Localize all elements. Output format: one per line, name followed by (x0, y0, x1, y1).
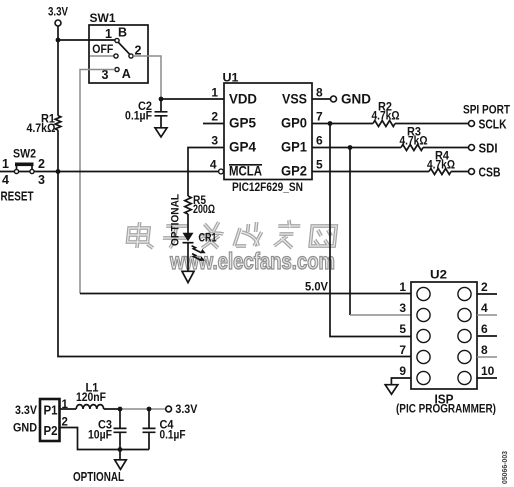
wire GP2 row to R4 (312, 171, 429, 173)
U2 right stubs pins 2,4,6,8,10 (477, 293, 497, 295)
wire SW1 pin2 to VDD node (133, 56, 161, 99)
svg-text:1: 1 (399, 280, 406, 294)
capacitor C4 (143, 409, 186, 450)
wire R4 to CSB (451, 171, 469, 173)
wire L1 to 3.3V terminal (104, 408, 120, 410)
svg-text:1: 1 (2, 157, 9, 171)
svg-text:0.1µF: 0.1µF (125, 111, 152, 123)
svg-text:www.elecfans.com: www.elecfans.com (169, 248, 335, 274)
IC U1 PIC12F629 (210, 73, 323, 180)
wire GP4 to R5 (188, 148, 224, 197)
svg-text:7: 7 (316, 110, 323, 124)
svg-text:8: 8 (316, 86, 323, 100)
U2 pin number labels left (399, 280, 406, 378)
svg-text:3: 3 (38, 173, 45, 187)
wire GP0 junction down to U2 pin5 (330, 124, 411, 337)
inductor L1 (76, 383, 106, 410)
pin2 GP5 stub (203, 123, 224, 125)
pin1 stub P1 (60, 408, 76, 410)
svg-text:4: 4 (210, 158, 217, 172)
svg-text:6: 6 (481, 322, 488, 336)
wire junction down to R1 (57, 40, 59, 116)
svg-text:GP1: GP1 (281, 139, 307, 155)
svg-text:9: 9 (399, 364, 406, 378)
svg-text:2: 2 (62, 417, 68, 429)
wire node to U1 pin1 VDD (161, 98, 224, 100)
svg-text:GND: GND (341, 91, 371, 107)
svg-text:2: 2 (211, 110, 218, 124)
svg-text:GP2: GP2 (281, 163, 307, 179)
svg-text:3: 3 (211, 134, 218, 148)
svg-text:10: 10 (481, 364, 495, 378)
svg-text:VSS: VSS (282, 91, 307, 107)
svg-text:SDI: SDI (479, 142, 498, 156)
svg-text:4: 4 (2, 173, 9, 187)
ground below C2 (155, 128, 167, 137)
resistor R4 (427, 151, 455, 175)
svg-text:SW1: SW1 (90, 13, 117, 25)
node junction bottom rail (118, 447, 123, 452)
svg-text:VDD: VDD (229, 91, 257, 107)
svg-text:OPTIONAL: OPTIONAL (73, 470, 124, 484)
wire R3 to SDI (423, 147, 469, 149)
wire P2 pin2 to bottom rail (60, 428, 149, 450)
svg-text:120nF: 120nF (76, 392, 106, 404)
connector P1/P2 (13, 399, 60, 441)
node junction SW2/R1 (56, 169, 61, 174)
wire down to U2 pin7 (58, 172, 411, 357)
svg-text:05066-003: 05066-003 (500, 451, 509, 484)
svg-text:P2: P2 (44, 423, 58, 438)
svg-text:1: 1 (211, 86, 218, 100)
svg-text:OPTIONAL: OPTIONAL (170, 194, 182, 246)
ground terminal GND pin8 (331, 91, 372, 107)
svg-text:10µF: 10µF (88, 429, 112, 441)
svg-text:3.3V: 3.3V (175, 404, 197, 416)
wire GP0 row to R2 (312, 123, 373, 125)
svg-text:5: 5 (316, 158, 323, 172)
pushbutton SW2 (2, 149, 45, 188)
svg-text:5: 5 (399, 322, 406, 336)
svg-text:SCLK: SCLK (479, 118, 507, 132)
wire SW1 pin3/A to 5.0V rail (down left side) (80, 70, 115, 294)
wire 3.3V terminal to junction (57, 26, 59, 40)
svg-text:7: 7 (399, 343, 406, 357)
wire 5.0V rail to U2 pin1 (80, 293, 411, 295)
node junction C3 top (118, 407, 123, 412)
capacitor C2 (125, 99, 168, 128)
watermark chinese characters (127, 220, 337, 248)
wire R5 to CR1 (187, 214, 189, 234)
svg-text:GP5: GP5 (229, 115, 256, 131)
svg-text:1: 1 (62, 399, 69, 411)
svg-text:SW2: SW2 (13, 149, 36, 161)
wire GP1 row to R3 (312, 147, 401, 149)
wire VSS to GND (312, 98, 330, 100)
connector U2 (411, 270, 477, 390)
wire GP1 junction down to U2 pin3 (349, 148, 351, 316)
svg-text:CSB: CSB (479, 166, 501, 180)
svg-text:0.1µF: 0.1µF (160, 429, 186, 441)
wire R1 to SW2/MCLA row (57, 130, 59, 171)
svg-text:SPI PORT: SPI PORT (463, 103, 511, 117)
svg-text:6: 6 (316, 134, 323, 148)
LED CR1 (183, 230, 217, 271)
U2 pin number labels right (481, 280, 495, 378)
svg-text:200Ω: 200Ω (193, 204, 215, 216)
svg-text:8: 8 (481, 343, 488, 357)
wire junction to SW1 pin1 (58, 39, 115, 41)
ground below CR1 (182, 271, 194, 282)
svg-text:1: 1 (105, 27, 112, 41)
node junction C4 top (147, 407, 152, 412)
resistor R3 (400, 127, 428, 151)
power terminal 3.3V top (48, 7, 68, 27)
resistor R2 (372, 102, 400, 127)
capacitor C3 (88, 409, 127, 450)
svg-text:(PIC PROGRAMMER): (PIC PROGRAMMER) (396, 402, 496, 416)
node junction VDD/C2 (159, 97, 164, 102)
ground below C3 rail (115, 460, 127, 470)
svg-text:3.3V: 3.3V (15, 405, 37, 417)
wire U2 pin9 to ground (391, 378, 411, 385)
terminal SCLK (469, 118, 507, 132)
svg-text:5.0V: 5.0V (305, 282, 328, 294)
node junction GP1 column (348, 145, 353, 150)
svg-text:B: B (118, 26, 127, 40)
switch SW1 (89, 13, 148, 83)
resistor R1 (27, 114, 61, 136)
svg-text:GP0: GP0 (281, 115, 307, 131)
wire RESET line to MCLA (0, 171, 219, 173)
svg-text:3.3V: 3.3V (48, 7, 68, 19)
svg-text:U2: U2 (430, 270, 447, 282)
terminal SDI (469, 142, 498, 156)
node junction at 3.3V rail (56, 38, 61, 43)
svg-text:P1: P1 (44, 403, 58, 418)
svg-text:CR1: CR1 (199, 230, 217, 244)
resistor R5 (185, 195, 215, 216)
svg-text:3: 3 (399, 301, 406, 315)
svg-text:A: A (122, 67, 131, 81)
wire R2 to SCLK (395, 123, 469, 125)
svg-text:GND: GND (13, 423, 37, 435)
svg-text:2: 2 (481, 280, 488, 294)
ground at U2 pin9 (385, 385, 398, 395)
svg-text:2: 2 (38, 157, 45, 171)
svg-text:OFF: OFF (92, 44, 113, 56)
svg-text:4: 4 (481, 301, 488, 315)
terminal 3.3V right (166, 404, 198, 416)
svg-text:GP4: GP4 (229, 139, 256, 155)
terminal CSB (469, 166, 501, 180)
svg-text:RESET: RESET (1, 189, 34, 204)
svg-text:4.7kΩ: 4.7kΩ (27, 123, 56, 135)
svg-text:PIC12F629_SN: PIC12F629_SN (232, 180, 303, 194)
node junction GP0 column (328, 121, 333, 126)
